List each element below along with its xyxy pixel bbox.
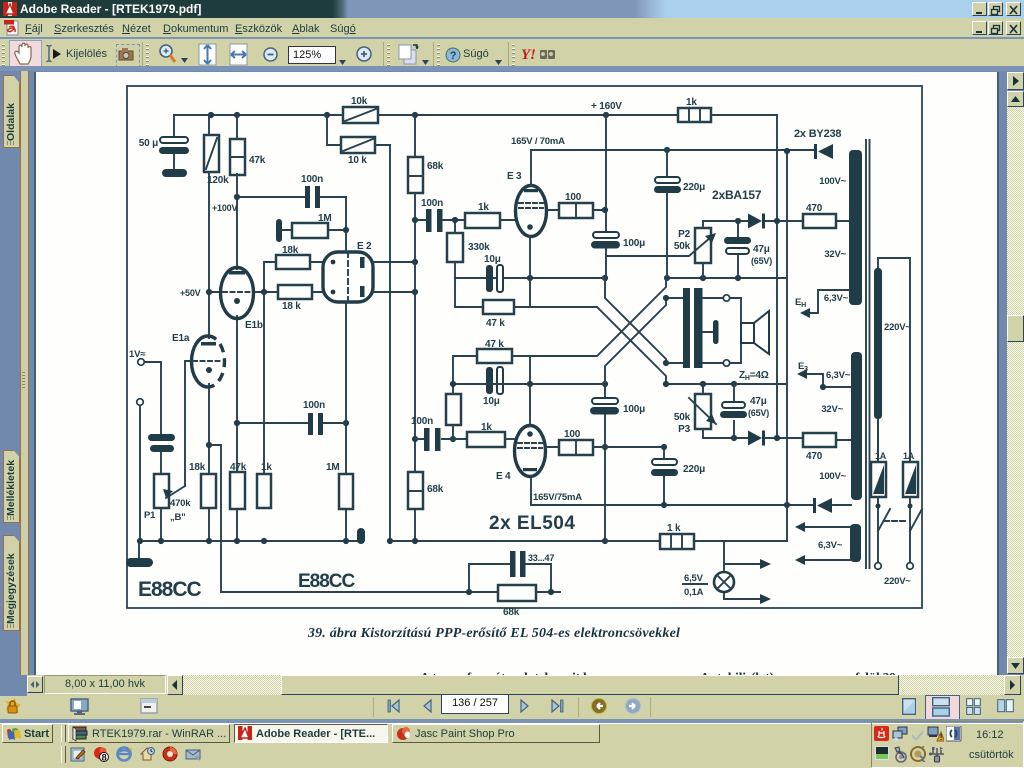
svg-text:+100V: +100V	[212, 203, 237, 213]
wire cathode bus E3 row y=278	[455, 277, 786, 279]
capacitor input coupling	[148, 434, 175, 474]
svg-text:220V~: 220V~	[884, 576, 911, 587]
svg-text:1M: 1M	[318, 213, 332, 224]
wire cathode bus E4 row y=384	[453, 383, 786, 385]
svg-text:2x BY238: 2x BY238	[794, 128, 841, 140]
svg-text:8: 8	[405, 730, 410, 740]
schematic border frame	[127, 86, 922, 608]
svg-text:100V~: 100V~	[819, 176, 846, 187]
wire feedback tap from E1a cathode	[206, 442, 560, 592]
svg-text:(65V): (65V)	[751, 256, 772, 266]
svg-text:Y!: Y!	[521, 47, 536, 63]
toolbar	[0, 39, 1024, 66]
svg-text:100μ: 100μ	[623, 238, 645, 249]
diode BY238 upper	[814, 144, 833, 159]
svg-text:100V~: 100V~	[819, 471, 846, 482]
taskbar	[0, 723, 1024, 768]
diode BA157 lower	[748, 431, 765, 446]
svg-text:1k: 1k	[686, 97, 697, 108]
svg-text:18k: 18k	[189, 462, 206, 473]
svg-text:1k: 1k	[481, 422, 492, 433]
svg-text:10k: 10k	[351, 96, 368, 107]
resistor 47k coupling lower	[453, 339, 530, 384]
svg-text:50k: 50k	[674, 412, 691, 423]
svg-text:68k: 68k	[427, 484, 444, 495]
svg-text:33...47: 33...47	[528, 553, 554, 563]
resistor 120k (adjustable)	[204, 135, 229, 186]
svg-text:P3: P3	[678, 424, 690, 435]
transformer primary 220V	[874, 258, 911, 462]
resistor 1k grid E3	[465, 202, 516, 228]
svg-text:100n: 100n	[411, 416, 433, 427]
triode E1a (half dashed)	[172, 333, 225, 387]
resistor 1k hum balance	[660, 523, 694, 549]
svg-text:100: 100	[564, 429, 581, 440]
fuse 1A right	[903, 451, 918, 531]
svg-text:1k: 1k	[261, 462, 272, 473]
resistor 470 upper	[803, 203, 836, 228]
svg-text:EH: EH	[795, 297, 806, 309]
svg-text:470k: 470k	[170, 498, 191, 509]
svg-text:165V / 70mA: 165V / 70mA	[511, 136, 565, 147]
capacitor 100n middle	[234, 400, 346, 435]
system tray	[871, 721, 1024, 768]
svg-text:+ 160V: + 160V	[591, 101, 622, 112]
lamp 6.5V 0.1A	[683, 541, 771, 604]
transformer secondary winding 2	[819, 352, 862, 500]
ground bus bottom	[389, 540, 787, 542]
svg-text:330k: 330k	[468, 242, 490, 253]
resistor 1M vertical	[326, 462, 353, 509]
svg-text:E88CC: E88CC	[138, 578, 202, 601]
svg-text:ZH=4Ω: ZH=4Ω	[739, 370, 769, 382]
resistor 1k grid E4	[467, 422, 514, 447]
triode E2 (second E88CC)	[323, 241, 415, 302]
svg-text:68k: 68k	[427, 161, 444, 172]
svg-text:10μ: 10μ	[484, 254, 501, 265]
capacitor 50u	[139, 115, 189, 177]
capacitor 47u (65V) upper	[724, 221, 772, 278]
svg-text:220μ: 220μ	[683, 182, 705, 193]
wire boost column x=390	[389, 145, 391, 541]
svg-text:100n: 100n	[303, 400, 325, 411]
svg-text:E 2: E 2	[357, 241, 372, 252]
potentiometer P1 470k B	[144, 474, 191, 541]
capacitor 100u lower	[590, 398, 645, 415]
svg-text:6,3V~: 6,3V~	[818, 540, 843, 551]
wire screen row y=221	[703, 220, 849, 222]
capacitor 33...47 feedback	[469, 551, 554, 577]
wire screen row y=438	[703, 438, 851, 440]
svg-text:P1: P1	[144, 510, 156, 521]
svg-text:47 k: 47 k	[486, 318, 505, 329]
wire anode/cathode column x=237	[236, 115, 238, 541]
resistor 1k screen top right	[678, 97, 711, 122]
svg-text:E88CC: E88CC	[298, 571, 356, 592]
svg-text:1A: 1A	[875, 451, 887, 461]
capacitor 220u lower	[651, 444, 705, 505]
heater tap E3	[797, 361, 851, 390]
svg-text:6,5V: 6,5V	[684, 573, 704, 584]
svg-text:100: 100	[565, 192, 582, 203]
svg-text:+50V: +50V	[180, 288, 201, 298]
svg-text:32V~: 32V~	[824, 249, 846, 260]
resistor 330k	[447, 217, 490, 278]
potentiometer P3 50k	[674, 384, 716, 438]
svg-text:1M: 1M	[326, 462, 340, 473]
potentiometer 10k lower	[327, 115, 390, 166]
svg-text:E1b: E1b	[245, 320, 263, 331]
svg-text:165V/75mA: 165V/75mA	[533, 492, 582, 503]
wire crossover to output transformer	[512, 278, 683, 387]
capacitor 100u upper	[591, 232, 645, 249]
wire phase splitter column x=415	[414, 115, 416, 541]
input terminal 1V	[129, 349, 161, 541]
svg-text:!: !	[940, 733, 942, 742]
wire E3 anode to rectifier row y=150	[531, 150, 814, 186]
svg-text:47 k: 47 k	[485, 339, 504, 350]
svg-text:0,1A: 0,1A	[684, 587, 704, 598]
svg-text:50k: 50k	[674, 241, 691, 252]
node junction dots on top bus	[208, 112, 609, 118]
vertical scrollbar	[1007, 72, 1024, 90]
resistor 47k coupling upper	[455, 278, 530, 329]
transformer secondary winding 1	[819, 150, 862, 305]
speaker	[730, 298, 769, 382]
wire anode line E1a/E1b column x=209	[208, 115, 210, 541]
svg-text:6,3V~: 6,3V~	[824, 293, 849, 304]
resistor 1k cathode E2	[257, 292, 272, 508]
resistor 18k upper	[264, 245, 323, 292]
svg-text:470: 470	[806, 203, 823, 214]
capacitor 220u upper	[654, 150, 705, 278]
resistor 18k lower	[209, 285, 323, 312]
svg-text:8: 8	[101, 753, 106, 764]
window title bar	[0, 0, 1024, 18]
svg-text:32V~: 32V~	[821, 404, 843, 415]
wire E2 grid/cathode column x=346	[345, 197, 347, 541]
svg-text:2xBA157: 2xBA157	[712, 188, 762, 202]
svg-text:E 3: E 3	[507, 171, 522, 182]
transformer winding 6.3V bottom	[795, 522, 861, 565]
wire top +160V supply bus	[174, 115, 777, 438]
ground symbol	[126, 558, 153, 567]
status bar	[0, 696, 1024, 719]
svg-text:E3: E3	[798, 361, 808, 373]
horizontal scrollbar row	[0, 674, 1024, 676]
svg-text:E1a: E1a	[172, 333, 190, 344]
svg-text:47k: 47k	[230, 462, 247, 473]
transformer core	[866, 140, 870, 568]
heater tap EH	[795, 290, 849, 318]
resistor 47k cathode E1b	[230, 462, 247, 509]
pentode E4	[496, 426, 582, 504]
resistor 1M grid E2	[276, 213, 346, 242]
capacitor 10u lower	[483, 367, 503, 407]
capacitor 47u (65V) lower	[720, 384, 769, 438]
menu bar	[0, 18, 1024, 38]
resistor 330k lower	[446, 381, 461, 442]
resistor 47k (anode E1b)	[230, 139, 266, 175]
svg-text:39. ábra Kistorzítású PPP-erős: 39. ábra Kistorzítású PPP-erősítő EL 504…	[307, 626, 680, 641]
diode BY238 lower	[813, 498, 832, 513]
triode E1b	[221, 268, 263, 332]
wire E4 anode to rectifier row y=505	[531, 504, 851, 506]
svg-text:10μ: 10μ	[483, 396, 500, 407]
svg-text:220V~: 220V~	[884, 322, 911, 333]
svg-text:47μ: 47μ	[753, 244, 770, 255]
svg-text:1 k: 1 k	[667, 523, 681, 534]
svg-text:18k: 18k	[282, 245, 299, 256]
svg-text:220μ: 220μ	[683, 464, 705, 475]
svg-text:100n: 100n	[421, 198, 443, 209]
svg-text:2x EL504: 2x EL504	[489, 513, 575, 534]
node +100V	[234, 194, 240, 200]
svg-text:47k: 47k	[249, 155, 266, 166]
capacitor 100n feedback	[237, 174, 346, 208]
navigation tabs	[3, 75, 20, 148]
capacitor 100n coupling E3	[415, 198, 465, 232]
resistor 100 anode E4	[546, 429, 664, 455]
quick launch second row	[61, 746, 66, 763]
svg-text:?: ?	[450, 50, 457, 62]
svg-text:„B": „B"	[170, 512, 186, 523]
svg-text:10 k: 10 k	[348, 155, 367, 166]
resistor 68k upper	[408, 157, 444, 193]
svg-text:68k: 68k	[503, 607, 520, 618]
svg-text:470: 470	[806, 451, 823, 462]
ground bus left	[137, 528, 365, 558]
svg-text:6,3V~: 6,3V~	[826, 370, 851, 381]
potentiometer 10k upper	[343, 96, 378, 123]
horizontal scrollbar / page size row	[0, 675, 1024, 696]
wire E1a grid riser	[185, 361, 193, 486]
resistor 68k feedback	[466, 564, 554, 618]
svg-text:47μ: 47μ	[750, 396, 767, 407]
resistor 100 anode E3	[547, 192, 604, 218]
node +50V	[206, 289, 212, 295]
capacitor 100n coupling E4	[411, 416, 467, 451]
svg-text:1V≈: 1V≈	[129, 349, 146, 360]
svg-text:E 4: E 4	[496, 471, 511, 482]
svg-text:18 k: 18 k	[282, 301, 301, 312]
svg-text:1k: 1k	[478, 202, 489, 213]
wire right vertical rails	[786, 151, 788, 541]
wire center supply column x=606	[605, 115, 606, 541]
svg-text:1A: 1A	[903, 451, 915, 461]
output transformer windings	[683, 288, 730, 368]
fuse 1A left	[871, 419, 887, 531]
resistor 68k lower	[408, 472, 444, 509]
document area	[0, 71, 1024, 675]
pentode E3	[507, 136, 565, 237]
svg-text:(65V): (65V)	[748, 408, 769, 418]
potentiometer P2 50k	[607, 221, 716, 278]
svg-text:100n: 100n	[301, 174, 323, 185]
diode BA157 upper	[748, 214, 765, 229]
capacitor 10u upper	[484, 254, 503, 292]
resistor 18k cathode E1a	[189, 462, 216, 508]
resistor 470 lower	[803, 433, 836, 462]
mains switch	[875, 504, 922, 588]
svg-text:100μ: 100μ	[623, 404, 645, 415]
svg-text:120k: 120k	[207, 175, 229, 186]
svg-text:50 μ: 50 μ	[139, 138, 158, 149]
svg-text:P2: P2	[678, 229, 690, 240]
